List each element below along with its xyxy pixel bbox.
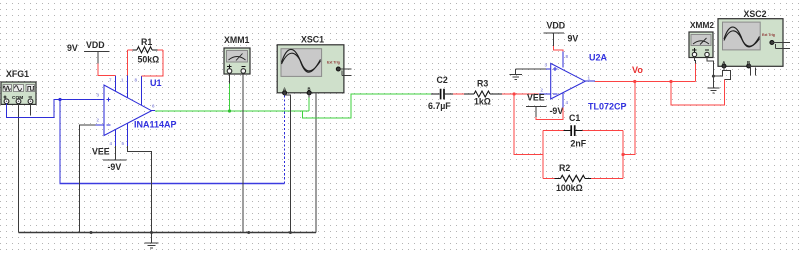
svg-text:C1: C1	[569, 113, 580, 123]
wire feedback network right side (red)	[622, 131, 624, 179]
power VEE symbol (U1)	[92, 146, 126, 172]
svg-text:TL072CP: TL072CP	[588, 102, 627, 112]
wire VDD to U1 V+ (red)	[98, 64, 116, 76]
wire Vo to XSC2 A (red)	[671, 79, 725, 105]
svg-text:XMM2: XMM2	[690, 20, 714, 30]
wire XSC1 B- to bus	[315, 94, 317, 233]
svg-text:-9V: -9V	[550, 106, 564, 116]
wire XSC2 A stub	[723, 66, 725, 70]
wire VEE to U2A V- (red)	[536, 108, 563, 120]
op-amp U2A TL072CP	[539, 51, 627, 112]
svg-text:1kΩ: 1kΩ	[474, 97, 491, 107]
svg-text:50kΩ: 50kΩ	[138, 55, 160, 65]
wire feedback left riser (red)	[514, 94, 543, 155]
wire XFG1 COM to ground bus	[18, 104, 20, 233]
function generator XFG1	[1, 69, 36, 104]
wire XFG1 plus to U1 noninverting input (blue)	[7, 100, 99, 118]
wire R1 right to RG pin (red)	[141, 50, 163, 76]
power VDD symbol (U1)	[67, 40, 110, 64]
svg-text:XMM1: XMM1	[224, 35, 250, 45]
junction bus dot 3	[247, 231, 250, 234]
ground bus wire (bottom)	[19, 232, 317, 234]
capacitor C1	[543, 113, 623, 149]
svg-text:Vo: Vo	[632, 65, 643, 75]
svg-text:R3: R3	[477, 79, 488, 89]
wire U1 REF pin to ground (black)	[128, 146, 152, 233]
ground symbol (U2A +input)	[510, 69, 523, 79]
wire XMM1 plus stub (black)	[229, 73, 231, 83]
svg-text:9V: 9V	[568, 34, 579, 44]
wire XMM1 plus probe (green)	[229, 83, 231, 111]
wire R3 to U2A inverting input (red)	[502, 93, 539, 95]
wire XSC1 A- to bus (gray)	[285, 93, 291, 233]
wire feedback network left side (red)	[542, 131, 544, 179]
node junction meters tap	[669, 80, 672, 83]
oscilloscope XSC2	[718, 9, 790, 68]
svg-text:INA114AP: INA114AP	[134, 120, 177, 130]
wire scope loop riser to XSC1 A (blue dashed)	[284, 96, 286, 184]
power VDD symbol (U2A)	[543, 20, 578, 45]
wire ground to U2A noninverting input (black)	[516, 68, 546, 70]
wire C2 to R3 (red)	[453, 93, 464, 95]
svg-text:C2: C2	[437, 75, 448, 85]
wire R1 left to RG pin (red)	[126, 50, 128, 76]
wire VDD to U2A V+ (red)	[554, 46, 563, 52]
svg-text:R2: R2	[559, 163, 570, 173]
wire ground to XSC2 A (black)	[713, 70, 730, 79]
node junction ground tap	[712, 75, 715, 78]
wire XSC1 B+ stub	[308, 93, 310, 98]
svg-text:XFG1: XFG1	[6, 69, 29, 79]
junction bus dot 4	[289, 231, 292, 234]
power VEE symbol (U2A)	[526, 92, 563, 117]
op-amp U1 INA114AP	[96, 75, 177, 146]
wire U2A output Vo (red)	[595, 81, 695, 83]
junction bus dot 2	[150, 231, 153, 234]
wire XSC2 B stubs (dangling)	[749, 64, 756, 75]
resistor R3	[464, 79, 502, 107]
ground symbol (XMM2/XSC2)	[707, 88, 719, 93]
multimeter XMM1	[224, 35, 250, 74]
svg-text:U1: U1	[150, 78, 162, 88]
node junction at U1 +input	[58, 98, 61, 101]
resistor R1	[127, 37, 163, 65]
wire U1 output to C2 (green)	[155, 94, 431, 118]
wire U1 inverting input to bus (black)	[79, 125, 98, 233]
oscilloscope XSC1	[277, 35, 351, 95]
wire input node to scope loop (blue)	[60, 100, 285, 184]
multimeter XMM2	[689, 20, 714, 58]
svg-text:VDD: VDD	[547, 20, 566, 30]
wire feedback to output (red)	[623, 82, 635, 155]
wire XSC1 A+ stub	[284, 93, 286, 96]
svg-text:9V: 9V	[67, 43, 78, 53]
junction bus dot 1	[90, 231, 93, 234]
svg-text:6.7µF: 6.7µF	[428, 101, 451, 111]
svg-text:VDD: VDD	[86, 40, 105, 50]
svg-text:-9V: -9V	[108, 162, 122, 172]
svg-text:XSC1: XSC1	[301, 35, 324, 45]
wire XMM2 minus to ground (black)	[707, 57, 713, 88]
svg-text:XSC2: XSC2	[744, 9, 767, 19]
node junction XMM1 probe	[228, 109, 231, 112]
svg-text:U2A: U2A	[589, 53, 608, 63]
node junction feedback at output	[633, 80, 636, 83]
ground symbol (U1 ref)	[145, 233, 159, 249]
node Vo label	[632, 65, 643, 75]
wire green branch to XSC1 B	[308, 98, 310, 112]
svg-text:2nF: 2nF	[571, 139, 587, 149]
node junction feedback tap	[513, 92, 516, 95]
wire XMM1 minus to bus (gray)	[242, 73, 244, 232]
svg-text:100kΩ: 100kΩ	[556, 183, 583, 193]
wire Vo to XMM2 plus (red)	[695, 64, 697, 82]
svg-text:VEE: VEE	[92, 146, 110, 156]
svg-text:Ext Trig: Ext Trig	[762, 33, 775, 37]
resistor R2	[543, 163, 623, 193]
svg-text:R1: R1	[141, 37, 152, 47]
svg-text:VEE: VEE	[527, 92, 545, 102]
svg-text:Ext Trig: Ext Trig	[327, 61, 340, 65]
wire XFG1 minus dangling stub	[30, 104, 32, 116]
wire XMM2 plus stub (black)	[695, 57, 696, 64]
node junction feedback right mid	[621, 153, 624, 156]
capacitor C2	[428, 75, 453, 111]
